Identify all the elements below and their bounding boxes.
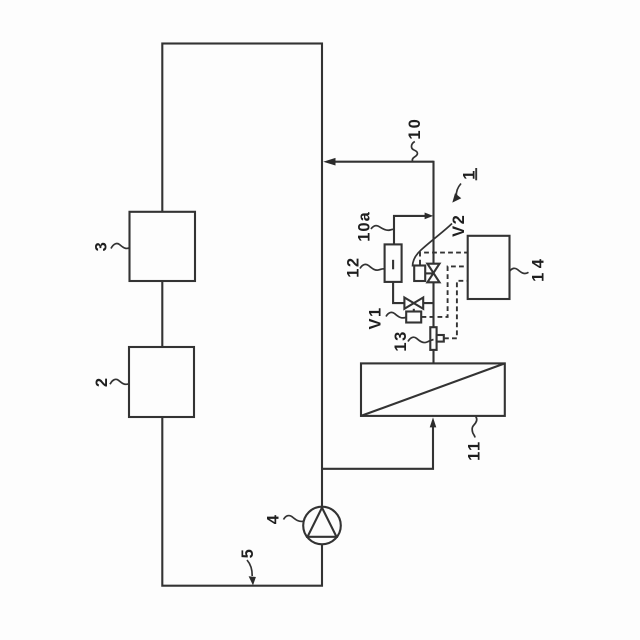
- svg-text:11: 11: [465, 440, 483, 460]
- label 2: [93, 376, 129, 387]
- svg-text:V2: V2: [450, 214, 468, 237]
- sensor 13: [430, 327, 444, 350]
- svg-text:12: 12: [344, 256, 362, 277]
- dashed control wire V1 to 14: [422, 266, 468, 317]
- wire: sensor 13 down to heat exchanger 11: [432, 350, 434, 364]
- svg-text:14: 14: [530, 255, 548, 282]
- label 10a: [355, 211, 394, 242]
- heater 12: [385, 244, 402, 282]
- label 5 with arrow: [239, 548, 257, 586]
- svg-text:4: 4: [264, 514, 282, 525]
- label 12: [344, 256, 384, 277]
- heat exchanger 11: [361, 363, 505, 416]
- label 11: [465, 417, 483, 461]
- controller box 14: [468, 236, 510, 299]
- wire: main branch between V2 and sensor 13: [432, 282, 434, 327]
- svg-text:10: 10: [406, 117, 424, 139]
- dashed control wire V2 to 14: [420, 253, 467, 265]
- svg-text:V1: V1: [367, 306, 385, 329]
- label 4: [264, 514, 304, 525]
- svg-text:5: 5: [239, 548, 257, 559]
- wire: from heater 12 down and right to main branch: [393, 282, 433, 303]
- component box 2: [129, 347, 194, 417]
- svg-text:3: 3: [93, 241, 111, 252]
- valve V1: [404, 298, 423, 323]
- label 3: [93, 241, 130, 252]
- label 1 with underline and arrow: [452, 168, 478, 203]
- label 14: [510, 255, 548, 282]
- wire: return from heat exchanger 11 to loop with up arrow: [322, 417, 436, 468]
- wire: main coolant loop rectangle: [162, 44, 322, 586]
- svg-text:2: 2: [93, 376, 111, 387]
- dashed control wire 13 to 14: [444, 281, 467, 339]
- label 13: [392, 330, 434, 351]
- valve V2: [414, 264, 439, 283]
- component box 3: [130, 212, 196, 281]
- label V1: [367, 306, 406, 329]
- label 10: [406, 117, 424, 161]
- svg-text:13: 13: [392, 330, 410, 351]
- svg-text:10a: 10a: [355, 211, 373, 242]
- wire: branch 10 horizontal with arrow into loop: [323, 158, 433, 166]
- wire: branch 10a with arrow into branch line: [394, 213, 433, 245]
- label V2 with leader curve: [413, 214, 469, 267]
- wire: branch 10 vertical down to valve V2: [432, 161, 434, 264]
- pump 4: [303, 507, 341, 545]
